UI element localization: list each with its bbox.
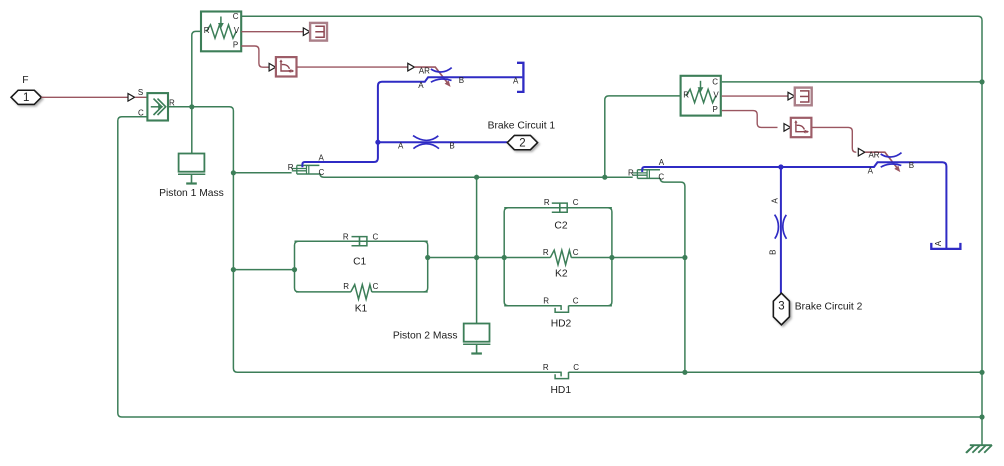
- svg-text:C1: C1: [353, 257, 366, 268]
- green junction 13: [979, 370, 984, 375]
- green junction 15: [979, 414, 984, 419]
- svg-text:R: R: [204, 26, 210, 35]
- terminator2 input wire: [722, 95, 789, 97]
- input arrow at S: [128, 94, 135, 102]
- hard stop HD1: [555, 371, 568, 379]
- svg-text:R: R: [288, 163, 294, 172]
- svg-text:C: C: [573, 248, 579, 257]
- green junction 6: [474, 255, 479, 260]
- sensor2 P wire to lookup2: [722, 111, 778, 128]
- wire: bottom rail / force C reference: [118, 117, 982, 417]
- svg-text:C: C: [573, 363, 579, 372]
- svg-text:Piston 1 Mass: Piston 1 Mass: [159, 188, 224, 199]
- motion sensor 1: [201, 12, 241, 52]
- svg-text:AR: AR: [868, 151, 879, 160]
- wire: junction 233 to converter1 R: [233, 172, 291, 174]
- svg-text:R: R: [683, 91, 689, 100]
- terminator1 input wire: [241, 31, 303, 33]
- hydraulic cap 2: [931, 243, 960, 249]
- svg-text:Piston 2 Mass: Piston 2 Mass: [393, 331, 458, 342]
- output port 2: [507, 136, 537, 150]
- hard stop HD2: [555, 304, 568, 312]
- wire: combo1 left rail: [295, 241, 299, 292]
- hydraulic cap 1: [517, 63, 523, 92]
- converter 2 (hydro-mech): [632, 170, 660, 179]
- wire: HD2 row: [504, 305, 612, 307]
- svg-text:A: A: [398, 141, 404, 150]
- sensor1 P wire to lookup1: [241, 46, 268, 67]
- svg-text:C: C: [373, 233, 379, 242]
- svg-text:A: A: [770, 197, 779, 203]
- svg-text:1: 1: [23, 92, 29, 104]
- svg-text:B: B: [769, 250, 778, 255]
- PS lookup table 1: [276, 57, 297, 76]
- svg-text:R: R: [628, 168, 634, 177]
- svg-text:P: P: [713, 105, 718, 114]
- green junction 2: [231, 170, 236, 175]
- green junction 10: [474, 175, 479, 180]
- svg-text:C: C: [658, 173, 664, 182]
- svg-text:A: A: [418, 81, 424, 90]
- force source block U1: [147, 93, 168, 120]
- wire: C2 row: [504, 207, 612, 209]
- wire: converter1 A up and over to orifice1: [302, 77, 522, 167]
- svg-text:HD1: HD1: [550, 385, 571, 396]
- wire: sensor2 C to right vertical: [722, 81, 982, 83]
- input port 1 (F): [11, 90, 41, 104]
- svg-text:K1: K1: [355, 304, 368, 315]
- blue junction brake2: [778, 164, 783, 169]
- svg-text:B: B: [909, 161, 914, 170]
- terminator1 input arrow: [303, 28, 310, 36]
- wire: junction 233 to combo1 left rail: [233, 269, 294, 271]
- wire: C1 row: [295, 240, 428, 242]
- Piston 2 Mass block: [463, 324, 490, 354]
- wire: sensor2 R down: [605, 96, 681, 177]
- lookup1 input arrow: [269, 63, 276, 71]
- wire: converter2 A to orifice2 to cap2: [642, 162, 946, 248]
- green junction 12: [682, 370, 687, 375]
- signal stub into S port: [135, 96, 147, 98]
- svg-text:B: B: [449, 141, 454, 150]
- svg-text:C: C: [138, 109, 144, 118]
- wire: combo2 left rail: [504, 208, 508, 306]
- svg-text:S: S: [138, 88, 143, 97]
- PS terminator 2: [795, 88, 812, 106]
- spring K2: [550, 250, 571, 265]
- green junction 3: [231, 267, 236, 272]
- damper C1: [352, 237, 367, 246]
- fixed orifice (brake circuit 1): [413, 136, 438, 141]
- svg-text:C2: C2: [554, 220, 567, 231]
- svg-text:A: A: [934, 240, 943, 246]
- damper C2: [552, 203, 567, 212]
- spring K1: [351, 285, 372, 300]
- svg-text:F: F: [22, 75, 28, 86]
- variable orifice 2: [881, 153, 902, 157]
- output port 3: [773, 293, 789, 325]
- converter 1 (hydro-mech): [292, 165, 320, 174]
- svg-text:C: C: [573, 297, 579, 306]
- lookup2 output wire to AR: [811, 127, 856, 152]
- wire: converter1 C line to converter2 R: [320, 173, 633, 177]
- orifice1 AR stub and control arrow: [415, 67, 447, 82]
- svg-text:R: R: [343, 233, 349, 242]
- fixed orifice (brake circuit 2): [775, 215, 779, 239]
- svg-text:R: R: [544, 198, 550, 207]
- orifice2 AR arrow: [858, 148, 865, 156]
- svg-text:R: R: [169, 98, 175, 107]
- ground reference: [970, 444, 992, 446]
- svg-text:HD2: HD2: [551, 318, 572, 329]
- svg-text:C: C: [319, 168, 325, 177]
- svg-text:A: A: [868, 167, 874, 176]
- svg-text:AR: AR: [419, 66, 430, 75]
- PS lookup table 2: [791, 118, 812, 137]
- svg-text:B: B: [459, 76, 464, 85]
- green junction 1: [189, 104, 194, 109]
- motion sensor 2: [681, 76, 721, 116]
- svg-text:R: R: [543, 297, 549, 306]
- svg-text:R: R: [543, 248, 549, 257]
- wire: brake circuit 2 branch down: [780, 167, 782, 293]
- green junction 11: [602, 175, 607, 180]
- svg-text:Brake Circuit 2: Brake Circuit 2: [795, 301, 863, 312]
- svg-text:C: C: [373, 282, 379, 291]
- PS terminator 1: [310, 23, 327, 41]
- wire: sensor1 C to top-right rail and right vertical: [241, 16, 982, 417]
- wire: force R to junction and to vertical 233: [168, 107, 982, 373]
- svg-text:K2: K2: [555, 269, 568, 280]
- wire: combo1 right rail: [424, 241, 428, 292]
- wire: piston2 vertical: [476, 177, 478, 323]
- orifice1 AR arrow: [408, 63, 415, 71]
- green junction 5: [425, 255, 430, 260]
- variable orifice 1: [431, 68, 452, 72]
- wire: spring row K1-K2 chain: [428, 257, 685, 259]
- svg-text:V: V: [234, 26, 240, 35]
- wire: K1 row: [296, 291, 428, 293]
- wire: R junction down to Piston 1 Mass: [191, 107, 193, 154]
- wire: combo2 right rail: [608, 208, 612, 306]
- green junction 4: [292, 267, 297, 272]
- svg-text:A: A: [513, 77, 519, 86]
- svg-text:Brake Circuit 1: Brake Circuit 1: [488, 120, 556, 131]
- svg-text:P: P: [233, 41, 238, 50]
- orifice2 AR stub and control arrow: [865, 152, 897, 167]
- wire: ground stem: [981, 417, 983, 445]
- svg-text:C: C: [233, 12, 239, 21]
- svg-text:C: C: [712, 78, 718, 87]
- green junction 8: [609, 255, 614, 260]
- svg-text:V: V: [713, 90, 719, 99]
- svg-text:R: R: [543, 363, 549, 372]
- Piston 1 Mass block: [178, 154, 205, 184]
- wire: sensor1 R down to R junction: [192, 31, 201, 106]
- svg-text:C: C: [573, 198, 579, 207]
- svg-text:3: 3: [778, 300, 784, 312]
- svg-text:2: 2: [519, 138, 525, 150]
- green junction 14: [979, 79, 984, 84]
- green junction 9: [682, 255, 687, 260]
- wire: converter2 C down right vertical: [660, 178, 685, 372]
- svg-text:R: R: [343, 282, 349, 291]
- lookup2 input arrow: [784, 124, 791, 132]
- lookup1 output wire to AR: [297, 66, 409, 68]
- signal wire F to force source S: [41, 96, 128, 98]
- terminator2 input arrow: [788, 92, 795, 100]
- wire: brake circuit 1 line: [378, 141, 508, 143]
- blue junction brake1: [375, 140, 380, 145]
- green junction 7: [502, 255, 507, 260]
- svg-text:A: A: [659, 158, 665, 167]
